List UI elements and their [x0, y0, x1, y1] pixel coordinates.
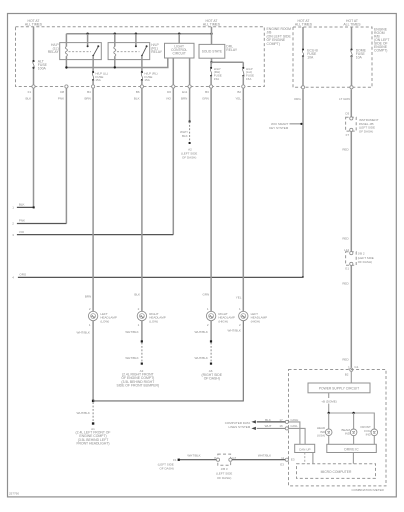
connector J/B 3 pass-through	[214, 454, 237, 480]
wire RED to combination meter	[342, 265, 351, 368]
svg-text:B2: B2	[237, 90, 241, 94]
wire WHT/BLK to meter pin 11	[232, 453, 295, 466]
wire light control output E11	[189, 58, 191, 85]
wire BLK to right headlamp low	[134, 88, 142, 311]
svg-text:YEL: YEL	[236, 296, 242, 300]
svg-text:BRN: BRN	[84, 97, 90, 101]
svg-text:(LEFT SIDE: (LEFT SIDE	[216, 472, 232, 476]
svg-text:RELAY: RELAY	[48, 50, 60, 54]
indicator HEAD IND (USA)	[317, 426, 332, 438]
wire ground left low WHT/BLK	[77, 321, 95, 402]
pin F1 wire BLK	[26, 90, 32, 101]
box MICRO COMPUTER	[297, 464, 376, 479]
connector terminal 3 VIO	[12, 230, 173, 237]
svg-text:ALL TIMES: ALL TIMES	[295, 22, 313, 26]
svg-text:BLK: BLK	[19, 203, 25, 207]
svg-text:G1: G1	[354, 365, 358, 369]
svg-text:BRN: BRN	[181, 97, 187, 101]
svg-text:F7: F7	[346, 133, 350, 137]
wire coil return bus	[65, 58, 168, 69]
connector terminal 4 ORG	[12, 273, 303, 280]
svg-text:ALL TIMES: ALL TIMES	[343, 22, 361, 26]
box CAN UP	[295, 444, 315, 452]
node indicator feed bus	[328, 412, 375, 429]
svg-text:J/B 3: J/B 3	[221, 467, 228, 471]
combination meter dashed box	[289, 370, 387, 492]
svg-text:17: 17	[279, 418, 283, 422]
fuse H/LP (LH) 15A	[242, 67, 254, 85]
wire relay LL output to fuse	[92, 56, 94, 72]
ground A6 dashed drop	[195, 343, 223, 381]
svg-text:+B (DOME): +B (DOME)	[321, 399, 337, 403]
svg-text:RELAY: RELAY	[226, 48, 238, 52]
pin D6 wire VIO	[166, 90, 172, 101]
wire ORG label	[294, 97, 302, 101]
svg-text:BLK: BLK	[182, 134, 188, 138]
indicator BEAM IND	[341, 428, 356, 436]
lamp LEFT HEADLAMP (HIGH)	[239, 307, 268, 327]
box POWER SUPPLY CIRCUIT	[308, 372, 370, 393]
svg-text:10A: 10A	[356, 56, 363, 60]
engine room J/B dashed box	[16, 27, 265, 87]
label ENGINE ROOM R/B	[374, 27, 389, 52]
svg-text:RED: RED	[342, 147, 349, 151]
wires CAN terminals to CAN UP	[289, 422, 306, 444]
svg-text:11: 11	[281, 456, 284, 460]
svg-text:(USA): (USA)	[317, 434, 325, 438]
svg-text:100A: 100A	[38, 67, 47, 71]
fuse H/LP (RL) 15A	[141, 71, 158, 85]
svg-text:DRIVE IC: DRIVE IC	[344, 447, 359, 451]
wire LT GRN from DOME fuse	[350, 89, 352, 117]
svg-text:(LOW): (LOW)	[100, 320, 109, 324]
svg-text:BLK: BLK	[134, 292, 140, 296]
svg-text:RELAY: RELAY	[151, 50, 163, 54]
svg-text:F1: F1	[28, 90, 32, 94]
svg-text:E3: E3	[280, 462, 284, 466]
wire relay RL output to fuse	[141, 56, 143, 72]
wire CANL line	[251, 424, 298, 430]
wire PNK to connector 2	[65, 88, 67, 223]
svg-text:10A: 10A	[307, 56, 314, 60]
svg-text:B2: B2	[345, 373, 349, 377]
label HOT AT ALL TIMES (DOME)	[343, 19, 361, 27]
svg-text:SOLID STATE: SOLID STATE	[202, 50, 222, 54]
wire DOME feed	[351, 27, 353, 49]
node DRL output split	[210, 61, 243, 67]
svg-text:15A: 15A	[144, 78, 149, 82]
svg-text:F1: F1	[173, 458, 177, 462]
svg-text:BLK: BLK	[265, 418, 271, 422]
fuse H/LP (LL) 15A	[92, 71, 108, 85]
terminals on J/B bottom edge	[32, 85, 245, 88]
svg-text:WHT/BLK: WHT/BLK	[77, 411, 90, 415]
svg-text:RED: RED	[342, 237, 349, 241]
fuse ALT 100A	[32, 60, 47, 71]
svg-text:16: 16	[279, 424, 283, 428]
svg-text:KEY SYSTEM: KEY SYSTEM	[269, 126, 289, 130]
svg-text:WHT/BLK: WHT/BLK	[195, 356, 208, 360]
svg-text:OF DASH): OF DASH)	[204, 377, 220, 381]
relay H/LP (LL) RELAY	[48, 34, 102, 68]
wire ground right high WHT/BLK	[195, 321, 213, 343]
wire +B (DOME)	[319, 393, 340, 413]
pin B2 wire YEL	[235, 90, 241, 101]
svg-text:CANH: CANH	[290, 418, 298, 422]
svg-text:OF DASH): OF DASH)	[159, 467, 173, 471]
svg-text:WHT/BLK: WHT/BLK	[125, 330, 138, 334]
label HOT AT ALL TIMES (ECU-B)	[295, 19, 313, 27]
wire VIO to connector 3	[172, 88, 174, 234]
wire ground right low WHT/BLK	[125, 321, 143, 343]
svg-text:G1: G1	[345, 266, 349, 270]
connector terminal 1 BLK	[12, 203, 35, 210]
svg-text:VIO: VIO	[166, 97, 172, 101]
svg-text:VIO: VIO	[19, 230, 25, 234]
svg-text:BLK: BLK	[26, 97, 32, 101]
wire BLK to connector 1	[33, 88, 35, 207]
svg-text:15A: 15A	[246, 77, 251, 81]
svg-text:IND: IND	[345, 432, 351, 436]
svg-text:ORG: ORG	[19, 273, 27, 277]
ground F1 (left side of dash)	[158, 458, 180, 471]
fuse DOME 10A	[350, 48, 366, 85]
svg-text:BRN: BRN	[85, 295, 91, 299]
pin D8 wire PNK	[58, 90, 64, 101]
connector A2 dashed segment WHT/BLK	[180, 122, 197, 160]
relay DRL (solid state)	[199, 27, 238, 63]
box DRIVE IC	[327, 444, 377, 452]
indicator FRONT FOG IND	[360, 425, 377, 437]
svg-text:WHT/BLK: WHT/BLK	[125, 356, 138, 360]
wire YEL to left headlamp high	[236, 88, 244, 311]
svg-text:(HIGH): (HIGH)	[218, 320, 228, 324]
svg-text:WHT/BLK: WHT/BLK	[187, 453, 200, 457]
pin B6 wire BLK	[134, 90, 140, 101]
svg-text:E3: E3	[291, 457, 295, 461]
svg-text:COMPUTER DATA: COMPUTER DATA	[225, 421, 251, 425]
svg-text:WHT/BLK: WHT/BLK	[195, 330, 208, 334]
wire DRIVE IC to micro computer	[352, 453, 354, 464]
wire BRN stub from E11	[189, 88, 191, 122]
terminal combination meter pin	[342, 357, 358, 376]
terminals on R/B bottom edge	[301, 86, 353, 89]
connector J/B pass-through (left side of dash)	[344, 248, 374, 271]
wire ALT feed	[33, 27, 35, 85]
relay H/LP (RL) RELAY	[108, 34, 163, 68]
label COMPUTER DATA LINES SYSTEM	[225, 421, 251, 429]
lamp RIGHT HEADLAMP (HIGH)	[206, 307, 235, 327]
wire light control output D6	[172, 58, 174, 85]
label HOT AT ALL TIMES (left)	[25, 19, 43, 27]
svg-text:COMPT): COMPT)	[267, 42, 280, 46]
drawing number label	[9, 492, 19, 496]
svg-text:COMBINATION METER: COMBINATION METER	[352, 488, 385, 492]
wire ground bus to left high	[93, 321, 243, 401]
svg-text:E11: E11	[182, 90, 187, 94]
annotation W/O SMART KEY SYSTEM	[269, 122, 302, 130]
wire ECU-B feed	[302, 27, 304, 49]
svg-text:POWER SUPPLY CIRCUIT: POWER SUPPLY CIRCUIT	[319, 386, 359, 390]
svg-text:CANL: CANL	[290, 424, 298, 428]
svg-text:OF DASH): OF DASH)	[359, 130, 373, 134]
svg-text:D6: D6	[167, 90, 171, 94]
svg-text:D3: D3	[345, 112, 349, 116]
label ENGINE ROOM J/B	[267, 27, 292, 46]
svg-text:GRN: GRN	[203, 292, 210, 296]
engine room R/B dashed box	[293, 27, 372, 87]
node bus HOT	[66, 33, 212, 35]
svg-text:CIRCUIT: CIRCUIT	[173, 52, 186, 56]
svg-text:B6: B6	[136, 90, 140, 94]
svg-text:WHT/BLK: WHT/BLK	[228, 329, 241, 333]
svg-text:YEL: YEL	[235, 97, 241, 101]
svg-text:COMPT): COMPT)	[374, 48, 387, 52]
svg-text:RED: RED	[342, 281, 349, 285]
svg-text:CAN UP: CAN UP	[299, 447, 311, 451]
svg-text:MICRO COMPUTER: MICRO COMPUTER	[321, 470, 352, 474]
svg-text:L12: L12	[344, 248, 349, 252]
wire WHT/BLK meter ground	[180, 453, 216, 459]
connector instrument panel J/B pass-through	[345, 112, 378, 137]
ground A3 dashed drop	[116, 343, 159, 388]
svg-text:B3: B3	[205, 90, 209, 94]
svg-text:OF DASH): OF DASH)	[217, 476, 231, 480]
pin B3 wire GRN	[202, 90, 209, 101]
svg-text:BLK: BLK	[134, 97, 140, 101]
wire BRN to left headlamp low	[85, 88, 93, 311]
lamp LEFT HEADLAMP (LOW)	[88, 307, 117, 327]
pin B4 wire BRN	[84, 90, 91, 101]
svg-text:(LOW): (LOW)	[149, 320, 158, 324]
svg-text:WHT/BLK: WHT/BLK	[77, 330, 90, 334]
svg-text:PNK: PNK	[58, 97, 64, 101]
svg-text:IND: IND	[366, 433, 372, 437]
svg-text:ORG: ORG	[294, 97, 302, 101]
svg-text:257790: 257790	[9, 492, 19, 496]
svg-text:SIDE OF FRONT BUMPER): SIDE OF FRONT BUMPER)	[116, 384, 159, 388]
label HOT AT ALL TIMES (DRL feed)	[203, 19, 221, 27]
svg-text:15A: 15A	[95, 78, 100, 82]
svg-text:OF DASH): OF DASH)	[182, 155, 196, 159]
svg-text:ALL TIMES: ALL TIMES	[25, 22, 43, 26]
lamp RIGHT HEADLAMP (LOW)	[137, 307, 166, 327]
wire CAN UP to micro computer	[305, 453, 313, 464]
box LIGHT CONTROL CIRCUIT	[165, 34, 195, 58]
fuse ECU-B 10A	[302, 48, 319, 85]
svg-text:15A: 15A	[214, 77, 219, 81]
wires indicators to drive ic	[329, 436, 375, 445]
wire LT GRN label	[339, 97, 350, 101]
svg-text:GRN: GRN	[202, 97, 209, 101]
svg-text:D8: D8	[60, 90, 64, 94]
wire RED down right side	[342, 131, 351, 252]
fuse H/LP (RH) 15A	[210, 67, 222, 85]
svg-text:WHT/BLK: WHT/BLK	[258, 453, 271, 457]
svg-text:LINES SYSTEM: LINES SYSTEM	[228, 425, 250, 429]
svg-text:PNK: PNK	[19, 219, 25, 223]
svg-text:FRONT HEADLIGHT): FRONT HEADLIGHT)	[76, 442, 109, 446]
connector terminal 2 PNK	[12, 219, 66, 226]
svg-text:LT GRN: LT GRN	[339, 97, 350, 101]
wire GRN to right headlamp high	[203, 88, 212, 311]
wire ORG vertical from ECU-B fuse	[302, 89, 304, 278]
svg-text:WHT: WHT	[265, 424, 272, 428]
svg-text:(HIGH): (HIGH)	[251, 320, 261, 324]
svg-text:ALL TIMES: ALL TIMES	[203, 22, 221, 26]
ground A1 dashed drop	[76, 402, 111, 445]
pin E11 wire BRN	[181, 90, 188, 101]
svg-text:RED: RED	[342, 357, 349, 361]
svg-text:OF DASH): OF DASH)	[358, 260, 372, 264]
svg-text:B4: B4	[87, 90, 91, 94]
wire CANH line	[251, 418, 298, 424]
